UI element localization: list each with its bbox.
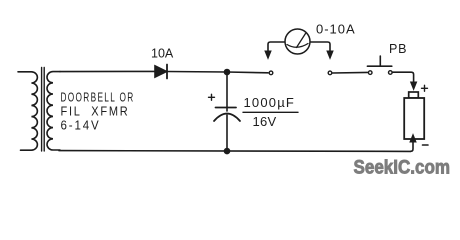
- battery clip arrow bottom (up): [410, 135, 416, 143]
- capacitor C1 plus sign: [209, 94, 215, 100]
- battery B1 body: [404, 98, 424, 139]
- battery B1 minus sign: [423, 144, 429, 146]
- pushbutton PB right terminal: [389, 71, 393, 75]
- pushbutton PB bar and stem: [367, 56, 391, 66]
- svg-text:10A: 10A: [151, 47, 174, 61]
- svg-text:PB: PB: [389, 42, 407, 56]
- ammeter right clip arrow: [327, 51, 333, 59]
- battery B1 terminal cap: [409, 92, 419, 98]
- ammeter M1 body: [285, 29, 310, 54]
- svg-text:SeekIC.com: SeekIC.com: [354, 157, 451, 179]
- capacitor C1 bottom lead: [226, 115, 228, 152]
- wire: PB to battery top: [393, 72, 414, 82]
- wire: node A to left meter terminal: [227, 71, 268, 74]
- svg-text:6-14V: 6-14V: [61, 119, 101, 133]
- ammeter needle: [297, 34, 306, 48]
- svg-text:1000µF: 1000µF: [244, 95, 296, 110]
- ammeter scale arc: [287, 44, 308, 48]
- battery clip arrow top (down): [411, 82, 417, 90]
- svg-text:16V: 16V: [253, 114, 277, 129]
- meter terminal (left, open circle): [269, 71, 273, 75]
- meter terminal (right, open circle): [328, 71, 332, 75]
- wire: capacitor C1 top lead: [226, 72, 228, 111]
- wire: secondary top to diode anode: [60, 70, 155, 72]
- capacitor C1 curved plate: [214, 114, 240, 122]
- pushbutton PB left terminal: [368, 71, 372, 75]
- junction node A (dot): [224, 69, 231, 76]
- capacitor C1 top plate: [216, 107, 237, 109]
- wire: battery bottom lead to bottom rail: [411, 140, 413, 151]
- transformer T1 secondary winding: [47, 72, 60, 150]
- wire: right meter terminal to PB: [332, 71, 367, 74]
- bottom rail wire: [59, 150, 411, 153]
- transformer T1 primary winding: [18, 72, 37, 150]
- wire: diode cathode to junction node A: [167, 71, 227, 74]
- svg-text:0-10A: 0-10A: [316, 21, 356, 36]
- svg-text:FIL XFMR: FIL XFMR: [61, 105, 130, 119]
- junction node B (dot): [224, 148, 231, 155]
- transformer T1 core: [42, 68, 45, 152]
- diode CR1 (10A): [155, 66, 167, 77]
- svg-text:DOORBELL OR: DOORBELL OR: [61, 91, 135, 105]
- battery B1 plus sign: [422, 85, 428, 91]
- ammeter left clip arrow: [265, 51, 271, 59]
- ammeter M1 leads: [268, 42, 286, 52]
